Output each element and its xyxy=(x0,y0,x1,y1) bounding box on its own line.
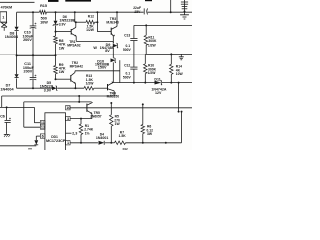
node main rail / C10 branch xyxy=(32,11,34,13)
wire output drop xyxy=(178,83,180,112)
svg-text:2N6057: 2N6057 xyxy=(90,114,102,118)
node R5 bottom xyxy=(110,142,112,144)
svg-text:500V: 500V xyxy=(123,75,132,79)
node W6 / link xyxy=(78,101,80,103)
svg-text:3.9V: 3.9V xyxy=(59,22,67,26)
wire to pin 11 xyxy=(34,122,40,124)
svg-text:MC1723CP: MC1723CP xyxy=(46,139,66,143)
svg-text:1/2W: 1/2W xyxy=(148,71,157,75)
resistor R12 xyxy=(86,20,95,24)
wire D7 to lower rail xyxy=(16,78,18,88)
wire cap to ground xyxy=(6,123,8,133)
node output drop on D11 wire xyxy=(178,82,180,84)
wire R6 top xyxy=(142,104,144,124)
pin 6 box xyxy=(40,134,45,138)
node C11 lower rail xyxy=(32,87,34,89)
node R14 rail on D11 wire xyxy=(170,82,172,84)
capacitor C13 xyxy=(130,38,137,40)
node TR2 emitter on lower rail xyxy=(74,87,76,89)
pin 2,3 stub xyxy=(66,132,72,134)
wire pin 6 branch down xyxy=(35,136,37,140)
wire mid ground rail xyxy=(145,53,192,55)
top edge artifact bar 2 xyxy=(65,0,91,2)
transistor TR3 MJE340 xyxy=(110,28,112,35)
wire R12 left xyxy=(75,21,86,23)
node R12 / TR3 base xyxy=(96,21,98,23)
wire R1 bottom xyxy=(80,135,82,143)
wire R8 to R9 xyxy=(55,44,57,66)
wire feedback line right xyxy=(87,107,192,109)
wire stub up from main rail xyxy=(170,0,172,12)
diode D4 xyxy=(99,141,105,145)
node feedback / R6 xyxy=(142,103,144,105)
resistor R1 xyxy=(79,124,83,135)
wire D6 to node xyxy=(55,26,57,36)
wire lower rail left xyxy=(17,87,52,89)
pin 3 box xyxy=(66,116,71,120)
node main rail / TR3 collector xyxy=(116,11,118,13)
node W6b / filter cap xyxy=(6,106,8,108)
wire collector rail W6 xyxy=(24,101,92,103)
svg-text:1W: 1W xyxy=(59,47,65,51)
svg-text:10W: 10W xyxy=(176,72,184,76)
node divider midpoint xyxy=(55,54,57,56)
svg-text:R12: R12 xyxy=(88,14,94,18)
svg-text:500V: 500V xyxy=(123,48,132,52)
wire to pin 6 xyxy=(36,135,40,137)
wire R11 top xyxy=(145,25,147,35)
svg-text:200V: 200V xyxy=(23,38,32,42)
node R1 top xyxy=(80,118,82,120)
wire R10 bottom xyxy=(144,74,146,83)
IC DD1 MC1723CP body xyxy=(45,113,66,153)
node D7/D8 midpoint xyxy=(16,54,18,56)
zener diode D5 xyxy=(52,86,57,90)
wire input stub down xyxy=(3,27,5,31)
svg-text:1W: 1W xyxy=(115,122,121,126)
wire R12 right xyxy=(95,21,98,23)
svg-text:D12: D12 xyxy=(123,147,129,150)
zener diode D6 xyxy=(54,21,58,25)
wire bottom rail right xyxy=(126,142,182,144)
svg-text:1/2W: 1/2W xyxy=(86,28,95,32)
node C12 on D11 wire xyxy=(133,82,135,84)
svg-text:3W: 3W xyxy=(147,132,153,136)
wire lower rail middle xyxy=(57,87,84,89)
svg-text:3.9V: 3.9V xyxy=(44,89,52,93)
wire D8 branch down xyxy=(16,12,18,27)
svg-text:1N4001: 1N4001 xyxy=(96,136,108,140)
svg-text:12V: 12V xyxy=(155,91,162,95)
wire R1 top xyxy=(80,119,82,124)
ground symbol mid-right xyxy=(180,54,182,56)
top edge artifact bar 3 xyxy=(145,0,152,1)
wire C10 branch xyxy=(32,12,34,26)
svg-text:C6: C6 xyxy=(0,115,5,119)
wire TR2 collector link xyxy=(75,70,120,72)
wire R12 branch down xyxy=(74,12,76,22)
pin 1 box xyxy=(66,141,71,145)
wire TR1 emitter to zener rail xyxy=(76,40,113,42)
wire C13 to C12 xyxy=(133,41,135,67)
wire pin10 to TR5 base xyxy=(70,107,87,109)
transistor TR2 MPSA42 xyxy=(70,75,72,82)
pin 12 box xyxy=(40,125,45,129)
svg-text:150V: 150V xyxy=(98,66,107,70)
capacitor C15 to ground xyxy=(184,0,186,12)
wire TR3 base xyxy=(97,31,111,33)
svg-text:C13: C13 xyxy=(124,33,130,37)
wire C12 bottom xyxy=(133,69,135,82)
svg-text:2,3: 2,3 xyxy=(72,132,77,136)
wire caps midpoint to divider xyxy=(17,54,56,56)
resistor R6 xyxy=(141,125,145,134)
wire R9 to TR2 base node xyxy=(55,74,57,79)
node C15 on main rail xyxy=(184,11,186,13)
node corner xyxy=(181,111,183,113)
wire bottom rail from pin1 xyxy=(70,142,98,144)
resistor R15 xyxy=(40,10,47,14)
wire R6 bottom xyxy=(142,134,144,143)
resistor R8 xyxy=(54,36,58,44)
node mid rail / R14 xyxy=(170,53,172,55)
transistor TR1 MPSA92 xyxy=(70,29,72,35)
top edge artifact bar 1 xyxy=(48,0,59,2)
svg-text:1: 1 xyxy=(2,16,4,20)
wire TR4 emitter rail right xyxy=(113,82,154,84)
wire bottom rail mid xyxy=(105,142,115,144)
diode D2 xyxy=(34,140,38,145)
wire D10 branch to emitter node xyxy=(119,60,121,82)
svg-text:R15: R15 xyxy=(40,4,47,8)
wire TR2 base xyxy=(56,78,71,80)
node main rail / R12 branch xyxy=(74,11,76,13)
svg-text:1.5K: 1.5K xyxy=(119,134,127,138)
wire R14 top xyxy=(170,54,172,64)
ground symbol bottom-left xyxy=(6,133,8,134)
wire main HV rail (top) xyxy=(17,11,40,13)
wire pin11 drop xyxy=(33,107,35,122)
transistor TR4 MJE350 xyxy=(107,84,109,90)
svg-text:1W: 1W xyxy=(59,70,65,74)
wire R14 bottom xyxy=(170,74,172,82)
capacitor C12 xyxy=(130,66,137,68)
capacitor C10 xyxy=(30,25,37,27)
svg-text:1%: 1% xyxy=(85,131,90,135)
capacitor C11 xyxy=(30,77,37,79)
wire C11 to lower rail xyxy=(32,80,34,88)
ground symbol top-right xyxy=(184,12,186,14)
svg-text:MPSA92: MPSA92 xyxy=(67,43,81,47)
wire zener rail upper xyxy=(112,41,114,43)
capacitor C14 (series) xyxy=(143,8,145,14)
diode D8 xyxy=(15,27,19,31)
wire W5 to W6 link xyxy=(78,96,80,102)
svg-text:12: 12 xyxy=(41,125,45,129)
resistor R14 xyxy=(170,64,174,74)
svg-text:6: 6 xyxy=(42,134,44,138)
wire TR3 emitter down xyxy=(112,36,114,43)
wire top-left border segment xyxy=(0,1,35,3)
scan artifact gray line xyxy=(0,54,145,56)
wire midpoint to C11 xyxy=(32,55,34,77)
resistor R13 xyxy=(84,86,94,90)
svg-text:1/2W: 1/2W xyxy=(86,81,95,85)
diode D7 xyxy=(15,74,19,77)
svg-text:25V: 25V xyxy=(134,10,141,14)
node caps midpoint xyxy=(32,54,34,56)
wire zener rail lower xyxy=(112,62,114,82)
node main rail / D6 branch xyxy=(55,11,57,13)
node bottom rail junction xyxy=(165,142,167,144)
svg-text:300K: 300K xyxy=(148,39,157,43)
wire D6 branch xyxy=(55,12,57,21)
svg-text:10W: 10W xyxy=(40,20,48,24)
wire C10 to midpoint xyxy=(32,28,34,55)
svg-text:1N4004: 1N4004 xyxy=(0,87,14,91)
wire pin3 to R1/emitter xyxy=(70,118,92,120)
resistor R7 xyxy=(115,141,126,145)
node R1 bottom xyxy=(80,142,82,144)
svg-text:1: 1 xyxy=(67,141,69,145)
svg-text:rm: rm xyxy=(28,147,32,150)
wire right corner down xyxy=(181,112,183,143)
zener diode D10 xyxy=(111,58,116,62)
wire pin12 drop xyxy=(23,102,25,127)
wire D11 to right edge xyxy=(162,82,192,84)
svg-text:MPSA42: MPSA42 xyxy=(70,64,84,68)
svg-text:W: W xyxy=(93,46,97,50)
transistor TR5 2N6057 xyxy=(86,104,88,112)
wire R11 to mid wire xyxy=(145,45,147,54)
fuse/varistor symbol below input xyxy=(1,23,7,27)
node output drop / edge wire xyxy=(178,111,180,113)
wire R5 top xyxy=(110,103,112,115)
wire filter cap branch xyxy=(6,107,8,120)
node R10 rail on D11 wire xyxy=(144,82,146,84)
wire TR1 base xyxy=(56,31,72,33)
node divider top xyxy=(55,31,57,33)
svg-text:D11: D11 xyxy=(154,77,160,81)
svg-text:470KM: 470KM xyxy=(1,6,12,10)
svg-text:MJE350: MJE350 xyxy=(107,95,120,99)
svg-text:3: 3 xyxy=(67,117,69,121)
node sense rail / R11 xyxy=(145,24,147,26)
node W5 / TR5 branch xyxy=(78,95,80,97)
zener diode D11 xyxy=(155,81,162,85)
input connector X1 xyxy=(0,12,7,22)
wire bottom-left rail xyxy=(0,145,36,147)
resistor R9 xyxy=(54,66,58,74)
wire TR3 base branch xyxy=(96,12,98,31)
wire supply rail W5 xyxy=(2,95,115,97)
wire sense rail top xyxy=(134,24,192,26)
node feedback / R5 xyxy=(110,102,112,104)
wire R10 top xyxy=(144,54,146,63)
svg-text:10: 10 xyxy=(66,106,70,110)
svg-text:1/2W: 1/2W xyxy=(148,44,157,48)
wire to pin 12 xyxy=(24,126,41,128)
wire R5 bottom xyxy=(110,126,112,143)
pin 11 box xyxy=(40,121,45,125)
wire input rail W6b xyxy=(0,106,34,108)
zener diode D9 xyxy=(113,44,118,48)
resistor R11 xyxy=(144,35,148,45)
node main rail right xyxy=(170,11,172,13)
node main rail / TR3 base branch xyxy=(96,11,98,13)
svg-text:200V: 200V xyxy=(24,70,33,74)
node divider bottom xyxy=(55,78,57,80)
pin 10 box xyxy=(66,106,71,110)
wire D8 to D7 xyxy=(16,31,18,74)
wire C13 branch xyxy=(133,25,135,38)
resistor R5 xyxy=(110,115,114,126)
svg-text:8V: 8V xyxy=(105,49,110,53)
wire zener rail middle xyxy=(112,48,114,59)
node TR1 collector xyxy=(75,21,77,23)
wire lower rail to TR4 base xyxy=(94,87,108,89)
svg-text:MJE340: MJE340 xyxy=(106,21,119,25)
resistor R10 xyxy=(144,64,148,74)
svg-text:C12: C12 xyxy=(124,63,130,67)
node R6 bottom xyxy=(142,142,144,144)
